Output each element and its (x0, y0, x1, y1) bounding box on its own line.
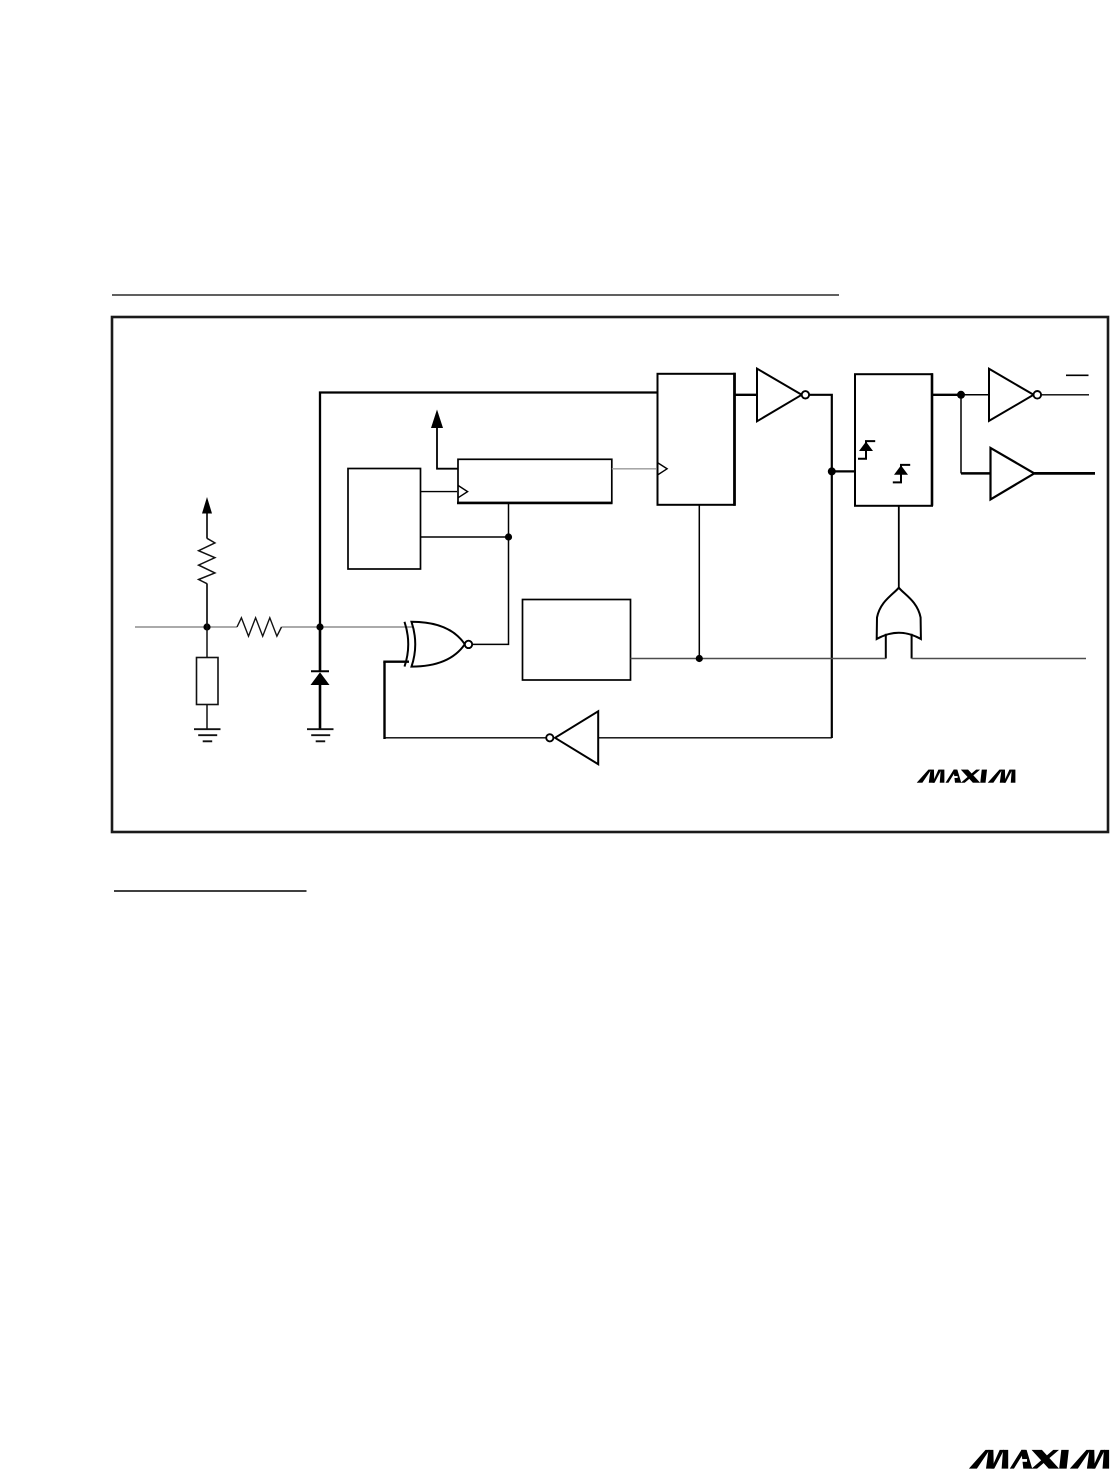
power VCC arrow 1 (202, 497, 212, 539)
wire U9 output to U8 left leg (631, 658, 886, 660)
wire U6 output stub (1041, 394, 1089, 396)
wire node F to U6 (961, 394, 989, 396)
resistor R2 (pull-up, vertical zigzag) (199, 538, 215, 627)
wire input net (gray, segment to XNOR) (282, 626, 413, 628)
node D (U3 bottom joins U9 output) (696, 655, 703, 662)
logo MAXIM (inside figure) (918, 770, 1016, 783)
wire into U7 input (961, 472, 991, 475)
pin U8 input leg left (885, 634, 887, 659)
node C (505, 533, 512, 540)
resistor R3 (box symbol to ground) (197, 627, 219, 729)
wire OR gate output up to U5 bottom (898, 506, 900, 590)
node F (957, 391, 965, 399)
wire U3 output to U4 (735, 394, 758, 396)
resistor R1 (series, horizontal zigzag) (237, 618, 282, 636)
logo MAXIM (page footer) (970, 1450, 1109, 1468)
inverter U4 (757, 369, 809, 422)
wire XNOR lower input stub (383, 661, 409, 663)
comparator block U9 (523, 600, 631, 681)
pin U8 input leg right (911, 634, 913, 659)
node E (828, 467, 836, 475)
overline of inverted output net label (1066, 374, 1089, 376)
node A (input junction) (203, 623, 210, 630)
xnor gate U2 (405, 622, 473, 667)
wire U7 output stub (1034, 472, 1095, 475)
wire U2 output up to node C (472, 540, 508, 644)
or-gate U8 (pointing up) (877, 588, 921, 639)
oscillator block U0 (348, 469, 421, 570)
flip-flop block U3 (658, 373, 735, 506)
one-shot block U5 (855, 373, 932, 506)
wire node C to U1 bottom (508, 503, 510, 537)
ground 2 (307, 729, 334, 741)
wire U0 to U1 clock (421, 491, 458, 493)
inverter U10 (feedback, pointing left) (546, 711, 598, 764)
wire U10 output to U2 lower input (383, 662, 546, 738)
diode D1 (clamp to ground) (311, 627, 330, 729)
wire U3 bottom to node D (698, 505, 700, 659)
wire node E to U5 input (832, 470, 855, 472)
pin clock input of U1 (458, 485, 468, 497)
wire node B up and across to U3 input (320, 393, 658, 628)
inverter U6 (inverted output) (989, 369, 1041, 421)
wire U4 output down to feedback run (809, 395, 832, 738)
wire U1 output to U3 clock (gray) (612, 468, 656, 470)
wire U0 output to node C (421, 536, 509, 538)
section rule above figure (112, 294, 839, 296)
power VCC arrow 2 (431, 410, 458, 469)
node B (after R1) (316, 623, 323, 630)
buffer U7 (true output) (991, 448, 1035, 500)
edge-trigger symbol 1 (in U5) (858, 441, 875, 459)
wire feedback run to U10 input (598, 737, 832, 739)
wire U5 output to node F (932, 394, 961, 396)
pin clock input of U3 (658, 463, 668, 475)
counter block U1 (457, 459, 613, 503)
ground 1 (194, 729, 221, 741)
figure frame (112, 317, 1108, 832)
wire input net (gray, left segment) (135, 626, 237, 628)
edge-trigger symbol 2 (in U5) (893, 465, 910, 483)
wire right-side input to U8 right leg (912, 658, 1086, 660)
heading underline below figure (114, 890, 307, 892)
wire node F down to U7 (960, 395, 962, 474)
